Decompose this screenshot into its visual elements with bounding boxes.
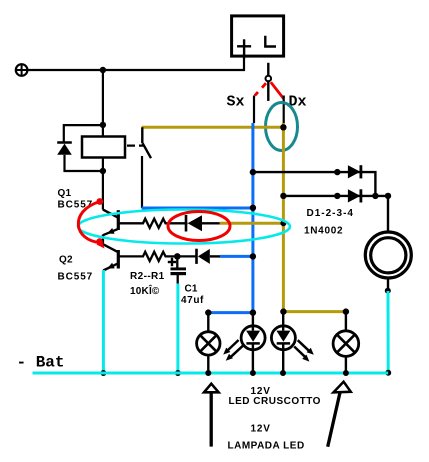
plus terminal symbol	[16, 64, 28, 76]
wire D row1	[253, 172, 376, 196]
wire blue from contact to Sx line	[142, 207, 253, 210]
capacitor C1	[168, 256, 186, 284]
relay contact switch K	[142, 127, 151, 208]
resistor R1	[120, 219, 188, 228]
node yellow D row2	[280, 193, 286, 199]
node C1 rail	[175, 370, 181, 376]
node lamp3 top	[280, 308, 286, 314]
switch S1 stem	[267, 63, 269, 76]
relay K1 box	[82, 137, 125, 158]
node yellow row1 junction	[280, 220, 286, 226]
wire blue row2 to Sx vertical	[220, 255, 253, 258]
switch S1 pivot	[266, 76, 272, 82]
switch S1 red blade right	[271, 82, 284, 98]
horn M1 double circle	[365, 232, 411, 278]
relay linkage dashed	[127, 145, 143, 147]
wire yellow from relay switch to Dx	[142, 126, 284, 129]
svg-text:1N4002: 1N4002	[304, 226, 343, 237]
red ellipse around diode	[168, 212, 230, 241]
wire Sx terminal	[253, 96, 255, 124]
wire cyan Q2 emitter down	[102, 270, 105, 373]
wire from plus terminal to battery	[28, 56, 244, 70]
LED L2 arrows	[223, 340, 243, 361]
svg-text:47uf: 47uf	[181, 295, 204, 306]
relay coil branch wire top	[64, 125, 103, 142]
switch S1 center contact	[267, 81, 269, 101]
svg-text:LAMPADA LED: LAMPADA LED	[228, 441, 305, 452]
switch S1 red blade left dashed	[255, 83, 266, 95]
relay branch wire bottom	[64, 170, 103, 172]
battery box B1	[232, 16, 284, 59]
svg-text:C1: C1	[185, 284, 198, 295]
node D row1 mid	[334, 169, 340, 175]
svg-text:12V: 12V	[251, 424, 271, 435]
svg-text:Sx: Sx	[227, 94, 245, 111]
wire blue Sx vertical	[251, 123, 254, 313]
diode D5 flyback	[57, 143, 72, 173]
teal ellipse around Dx wire	[266, 103, 298, 151]
node D row2 mid	[334, 193, 340, 199]
node horn bottom	[385, 288, 391, 294]
svg-text:10KÎ©: 10KÎ©	[130, 284, 160, 297]
node blue contact junction	[250, 205, 256, 211]
wire main vertical	[102, 70, 104, 137]
node horn top	[385, 193, 391, 199]
wire cyan horn down	[387, 291, 390, 373]
node lamp4 rail	[343, 370, 349, 376]
node lamp2 top	[250, 309, 256, 315]
node blue D row1	[250, 169, 256, 175]
wire yellow row1 to Dx vertical	[220, 222, 284, 225]
diode D2	[348, 189, 361, 202]
diode D1	[348, 165, 361, 178]
wire Dx terminal	[283, 96, 285, 124]
transistor Q1	[103, 210, 118, 245]
node horn rail	[385, 370, 391, 376]
big arrow right	[328, 382, 351, 447]
wire blue lamp feed	[208, 311, 253, 314]
transistor Q2	[103, 244, 118, 270]
lamp L4	[333, 312, 359, 373]
wire horn stem bottom	[387, 278, 389, 291]
diode D6 row1	[186, 215, 220, 232]
node lamp1 rail	[205, 370, 211, 376]
svg-text:- Bat: - Bat	[17, 354, 65, 372]
wire cyan negative rail	[33, 372, 389, 375]
wire cyan C1 down	[176, 284, 179, 374]
node relay bottom	[100, 168, 106, 174]
node D rows join	[372, 193, 378, 199]
wire yellow lamp feed	[283, 310, 346, 313]
LED L3 arrows	[294, 340, 314, 361]
node junction top	[100, 67, 106, 73]
lamp LED L2	[241, 313, 265, 373]
node lamp1 top	[205, 309, 211, 315]
svg-text:D1-2-3-4: D1-2-3-4	[307, 208, 354, 219]
node lamp2 rail	[250, 370, 256, 376]
node lamp4 top	[343, 308, 349, 314]
node Dx junction	[280, 124, 286, 130]
svg-text:LED CRUSCOTTO: LED CRUSCOTTO	[229, 396, 321, 407]
red arrow Q1 to Q2	[78, 198, 104, 248]
big arrow left	[204, 384, 219, 447]
wire D row2	[283, 195, 388, 197]
wire yellow Dx vertical	[282, 123, 285, 312]
wire relay to Q1	[102, 158, 104, 210]
lamp LED L3	[271, 312, 295, 373]
svg-text:Q1: Q1	[58, 188, 72, 199]
node relay branch	[100, 122, 106, 128]
wire horn stem top	[387, 196, 389, 233]
cyan ellipse around transistor row	[78, 210, 290, 244]
diode D7 row2	[197, 249, 221, 264]
node blue row2 junction	[250, 253, 256, 259]
svg-text:Q2: Q2	[59, 255, 73, 266]
svg-text:BC557: BC557	[58, 272, 94, 283]
node lamp3 rail	[280, 370, 286, 376]
svg-text:R2--R1: R2--R1	[130, 271, 165, 282]
node R2 C1 junction	[174, 253, 181, 260]
node Q2 emitter rail	[100, 370, 106, 376]
resistor R2	[120, 252, 197, 261]
lamp L1	[197, 313, 220, 373]
